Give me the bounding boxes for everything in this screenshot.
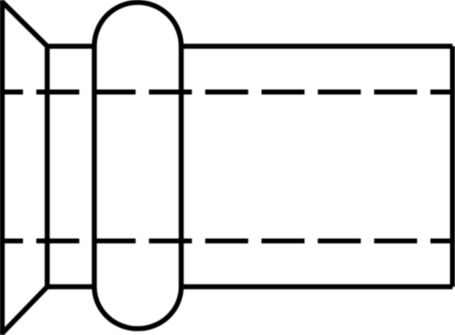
pipe end face (right vertical edge) — [450, 46, 455, 287]
chamfer bottom (countersink diagonal) — [2, 287, 47, 333]
fitting mouth outer face (left vertical edge) — [0, 0, 5, 335]
lower hidden bore line (dashed) — [0, 238, 455, 243]
bottom shoulder line (socket to bead) — [47, 284, 94, 289]
O-ring bead (stadium outline) — [94, 2, 181, 328]
top shoulder line (socket to bead) — [47, 44, 94, 49]
pipe top outline — [181, 44, 452, 49]
socket inner shoulder (vertical) — [45, 46, 50, 287]
chamfer top (countersink diagonal) — [2, 2, 47, 46]
upper hidden bore line (dashed) — [0, 90, 455, 95]
pipe bottom outline — [181, 284, 452, 289]
